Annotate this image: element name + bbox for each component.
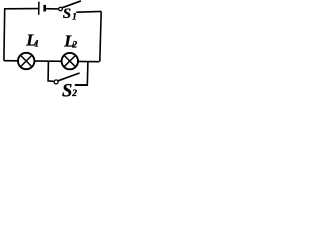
switch S1 arm (open)	[62, 1, 81, 8]
switch S2 pivot circle	[54, 80, 58, 84]
svg-text:1: 1	[72, 12, 77, 22]
svg-text:S: S	[62, 82, 72, 99]
battery B1 long plate	[38, 2, 40, 15]
svg-text:2: 2	[71, 41, 77, 51]
svg-text:S: S	[63, 6, 71, 22]
svg-text:1: 1	[34, 40, 39, 50]
switch S1 pivot circle	[59, 7, 63, 11]
battery B1 short plate	[43, 5, 46, 12]
lamp L1	[18, 53, 34, 69]
wire junction A down + to switch S2	[48, 61, 54, 81]
wire top-right	[76, 10, 101, 13]
wire top-left + left side	[4, 9, 38, 61]
wire S2 right	[75, 84, 88, 86]
svg-text:2: 2	[71, 89, 77, 99]
wire battery to switch S1	[45, 8, 59, 10]
wire node B vertical	[86, 62, 89, 86]
wire right side	[100, 11, 101, 61]
switch S2 arm (open)	[58, 73, 80, 81]
wire middle row	[4, 61, 99, 62]
lamp L2	[62, 53, 78, 69]
